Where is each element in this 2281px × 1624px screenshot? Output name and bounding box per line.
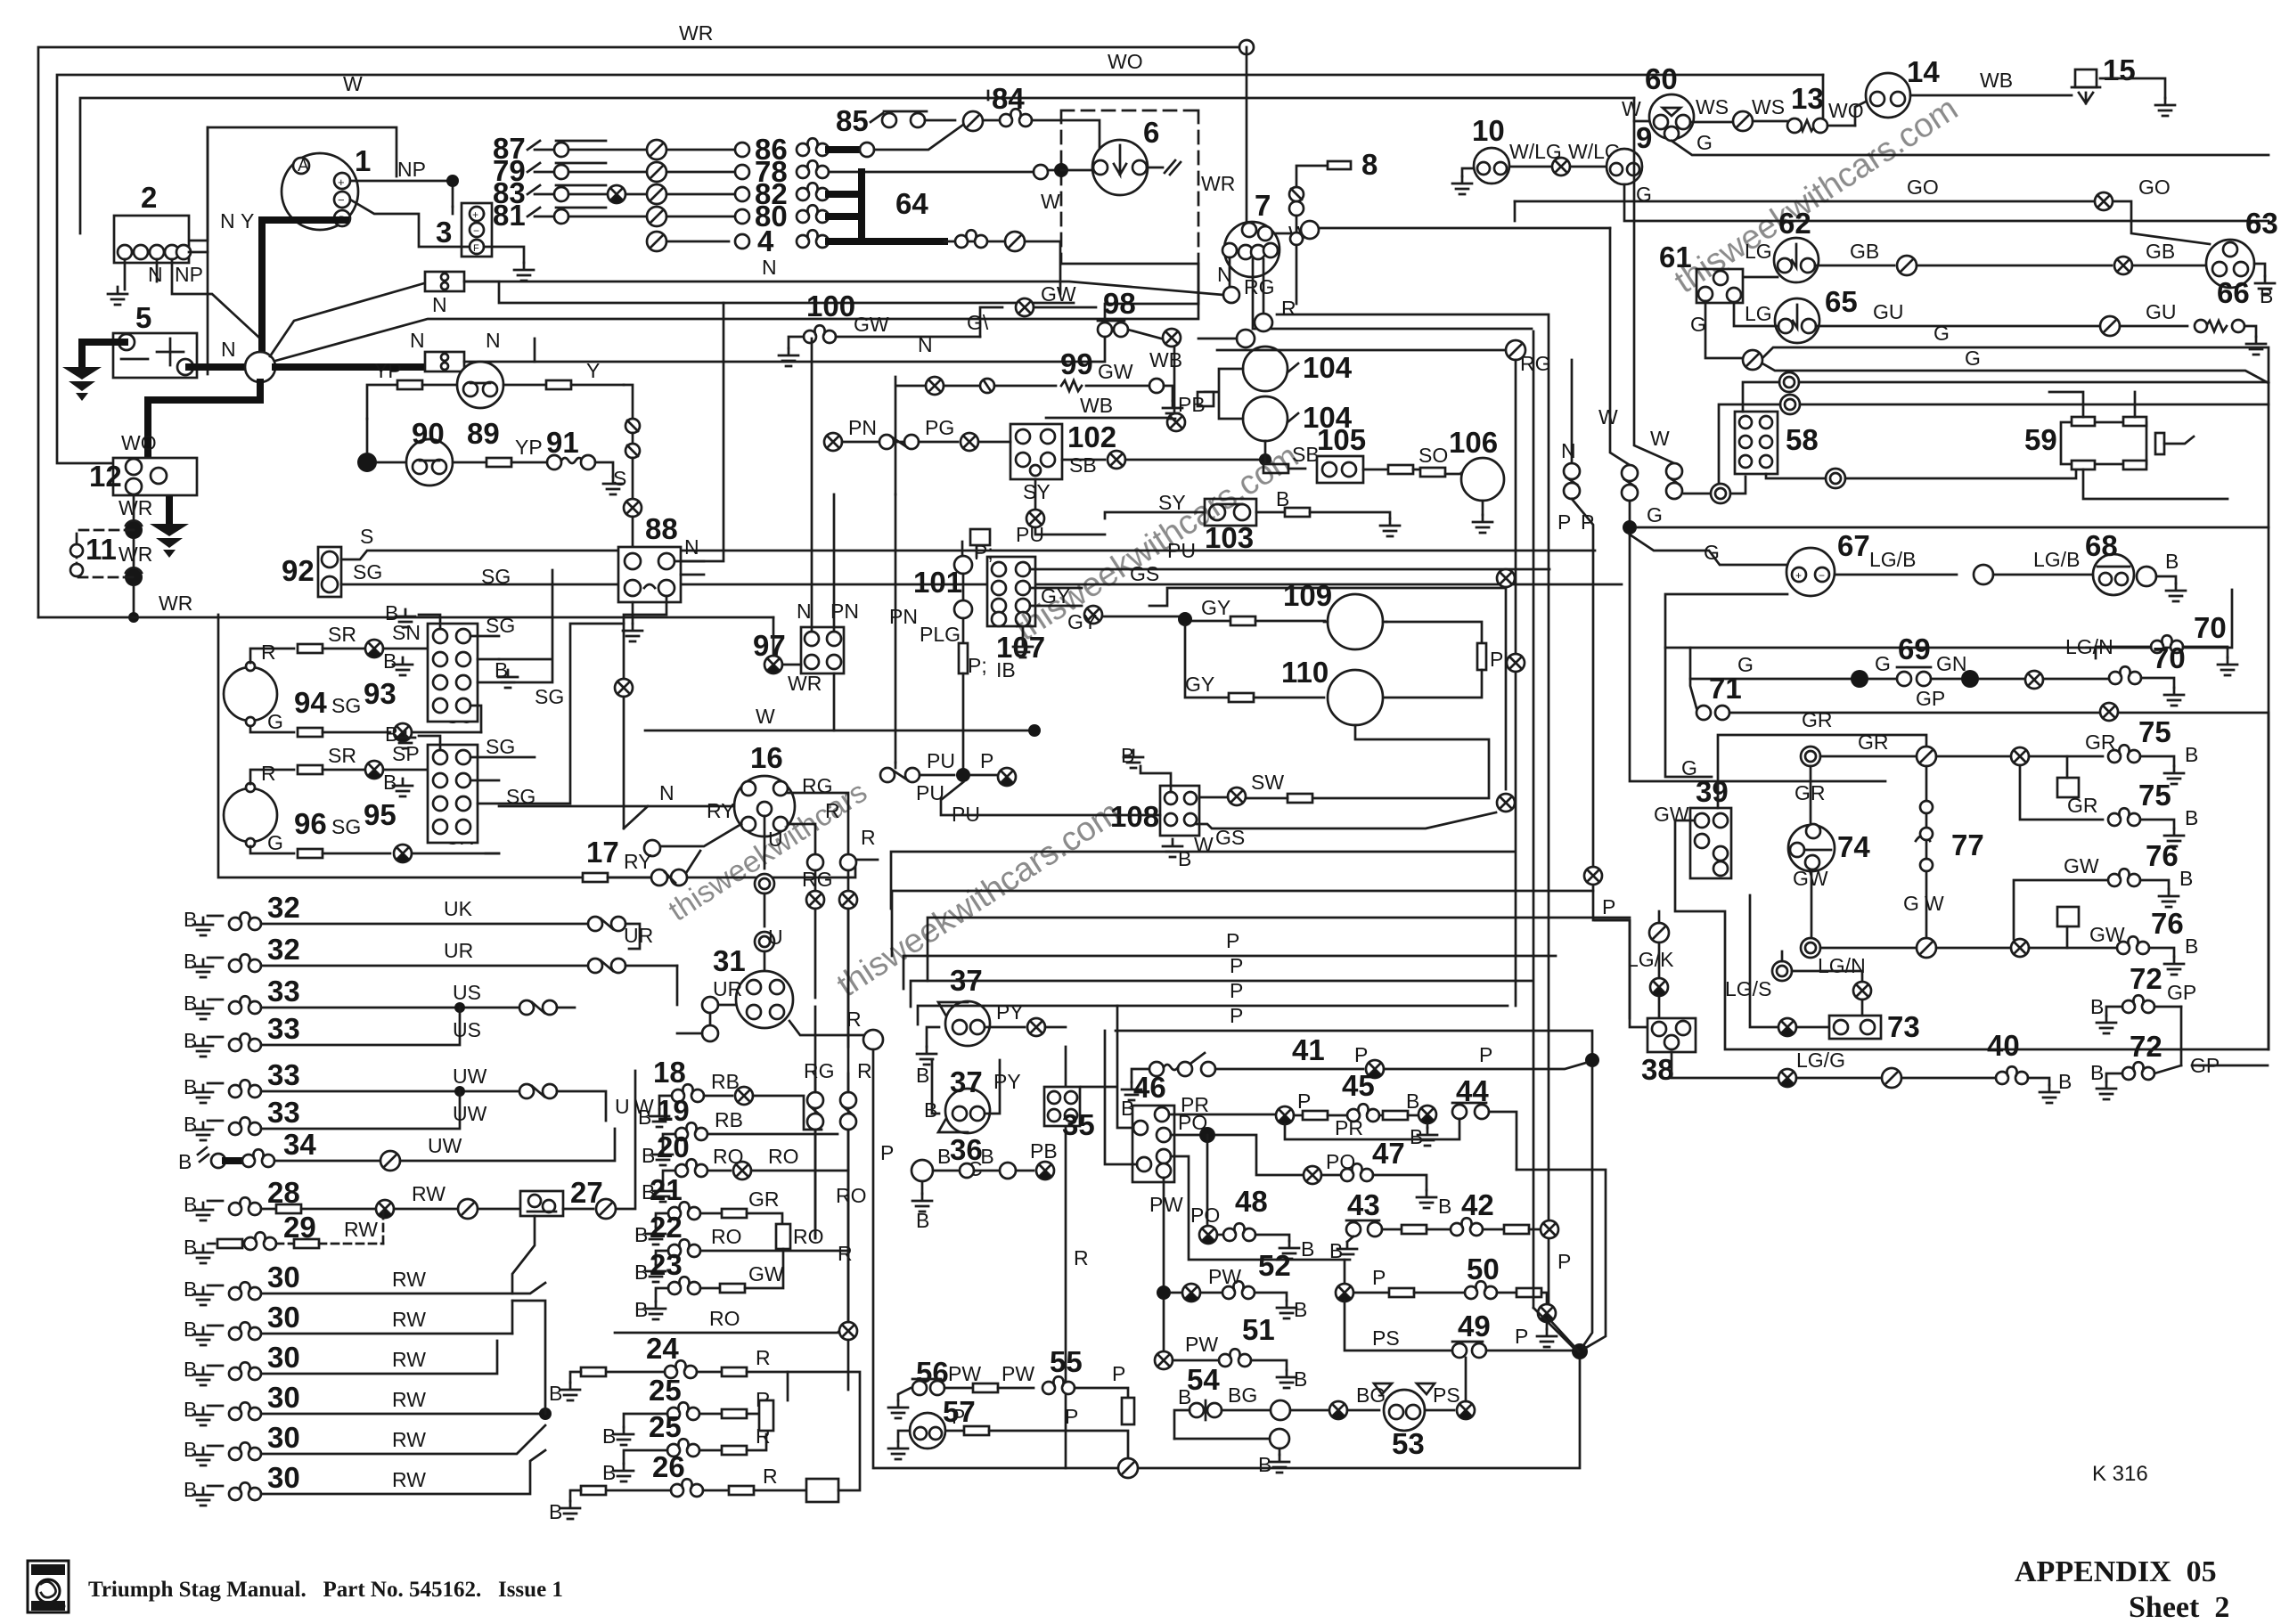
svg-text:′B: ′B xyxy=(977,1145,994,1168)
connector block 108 xyxy=(1110,786,1199,836)
svg-text:APPENDIX 05: APPENDIX 05 xyxy=(2015,1555,2217,1588)
switch 31 xyxy=(713,944,793,1028)
svg-text:LG/B: LG/B xyxy=(1869,548,1916,571)
connector block 38 xyxy=(1641,1018,1696,1086)
svg-text:69: 69 xyxy=(1898,632,1931,665)
86/78/82/80/4 row xyxy=(735,125,1061,294)
svg-text:94: 94 xyxy=(294,686,327,719)
svg-text:25: 25 xyxy=(649,1374,682,1407)
svg-text:10: 10 xyxy=(1472,114,1505,147)
component 10 xyxy=(1472,114,1509,184)
lamp 45 / switch 44 xyxy=(1276,1106,1294,1124)
svg-text:4: 4 xyxy=(757,224,774,257)
lamps 104 xyxy=(1243,347,1353,391)
svg-text:WS: WS xyxy=(1696,95,1729,118)
svg-text:31: 31 xyxy=(713,944,746,977)
svg-text:P: P xyxy=(1230,1004,1243,1027)
svg-text:UW: UW xyxy=(428,1134,462,1157)
SG wire from 88 area down xyxy=(624,596,666,677)
svg-text:67: 67 xyxy=(1837,529,1870,562)
svg-text:UR: UR xyxy=(713,977,742,1000)
thick lead battery + to node xyxy=(189,363,251,371)
svg-text:B: B xyxy=(1410,1125,1423,1148)
svg-text:43: 43 xyxy=(1347,1188,1380,1221)
connector pair symbols (7/8 and 5/6) on RG/R verticals xyxy=(807,1092,823,1108)
svg-text:UR: UR xyxy=(624,924,653,947)
wire W top xyxy=(80,98,1634,233)
svg-text:110: 110 xyxy=(1281,656,1329,689)
svg-text:6: 6 xyxy=(1143,116,1159,149)
inner alternator box xyxy=(208,127,397,374)
svg-text:B: B xyxy=(184,1236,197,1259)
svg-text:B: B xyxy=(1258,1453,1271,1476)
svg-text:RG: RG xyxy=(804,1059,835,1082)
svg-text:N: N xyxy=(220,209,235,233)
svg-text:38: 38 xyxy=(1641,1053,1674,1086)
battery 5 xyxy=(113,301,197,378)
svg-text:3: 3 xyxy=(436,216,452,249)
svg-text:39: 39 xyxy=(1696,775,1729,808)
svg-text:−: − xyxy=(1819,569,1825,582)
svg-text:32: 32 xyxy=(267,891,300,924)
svg-text:GY: GY xyxy=(1201,596,1230,619)
svg-text:P: P xyxy=(1065,1405,1078,1428)
lower lamp group 96/95 xyxy=(224,783,327,847)
svg-text:RO: RO xyxy=(793,1225,824,1248)
svg-text:LG/B: LG/B xyxy=(2033,548,2080,571)
svg-text:G: G xyxy=(1875,652,1891,675)
svg-text:+: + xyxy=(338,175,345,189)
svg-text:RW: RW xyxy=(392,1308,426,1331)
svg-text:BG: BG xyxy=(1228,1383,1257,1407)
svg-text:26: 26 xyxy=(652,1450,685,1483)
svg-text:LG/N: LG/N xyxy=(1818,954,1866,977)
main node xyxy=(245,352,275,382)
wire NP from 1 to node xyxy=(350,178,453,207)
svg-text:63: 63 xyxy=(2245,207,2278,240)
sender 63 xyxy=(2206,207,2278,288)
svg-text:96: 96 xyxy=(294,807,327,840)
svg-text:PW: PW xyxy=(1208,1265,1241,1288)
svg-text:SG: SG xyxy=(486,735,515,758)
svg-text:18: 18 xyxy=(653,1056,686,1089)
svg-text:59: 59 xyxy=(2024,423,2057,456)
svg-text:95: 95 xyxy=(364,798,397,831)
svg-text:66: 66 xyxy=(2217,276,2250,309)
svg-text:W: W xyxy=(1598,405,1618,428)
svg-text:RW: RW xyxy=(392,1428,426,1451)
svg-text:58: 58 xyxy=(1786,423,1819,456)
svg-text:B: B xyxy=(1406,1089,1419,1113)
gauge 65 xyxy=(1775,285,1858,343)
connector 92 xyxy=(282,547,341,597)
svg-text:−: − xyxy=(338,193,345,207)
svg-text:65: 65 xyxy=(1825,285,1858,318)
wire GW / lamp 76 xyxy=(1801,938,1820,958)
svg-text:YP: YP xyxy=(374,359,402,382)
svg-text:PN: PN xyxy=(889,605,918,628)
svg-text:91: 91 xyxy=(546,426,579,459)
svg-text:53: 53 xyxy=(1392,1427,1425,1460)
svg-text:NP: NP xyxy=(397,158,426,181)
svg-text:N: N xyxy=(432,293,447,316)
svg-text:7: 7 xyxy=(1255,189,1271,222)
wire P feeds xyxy=(892,891,1593,956)
connector block 8-pin upper xyxy=(428,624,478,722)
svg-text:K 316: K 316 xyxy=(2092,1462,2148,1486)
svg-text:GR: GR xyxy=(2067,794,2098,817)
svg-text:GR: GR xyxy=(1802,708,1833,731)
svg-text:W: W xyxy=(1650,427,1670,450)
svg-text:GO: GO xyxy=(2138,175,2171,199)
svg-text:N: N xyxy=(221,338,236,361)
svg-text:100: 100 xyxy=(806,290,855,322)
motor 109 xyxy=(1230,616,1255,625)
svg-text:P: P xyxy=(1297,1089,1311,1113)
wire W xyxy=(645,730,1034,732)
svg-text:PW: PW xyxy=(1002,1362,1034,1385)
svg-text:R: R xyxy=(763,1465,778,1488)
connector block 8-pin lower xyxy=(428,745,478,843)
svg-text:B: B xyxy=(634,1261,648,1284)
svg-text:IB: IB xyxy=(996,658,1016,681)
horns 37 xyxy=(938,964,990,1046)
svg-text:R: R xyxy=(1074,1246,1089,1269)
svg-text:G: G xyxy=(1696,131,1713,154)
svg-text:N: N xyxy=(684,535,699,559)
component 60 xyxy=(1645,62,1694,141)
component 8 xyxy=(1296,166,1328,201)
svg-text:G: G xyxy=(267,710,283,733)
svg-text:24: 24 xyxy=(646,1332,679,1365)
svg-text:B: B xyxy=(1301,1237,1314,1261)
svg-text:N: N xyxy=(797,600,812,623)
svg-text:B: B xyxy=(549,1382,562,1405)
svg-text:71: 71 xyxy=(1709,672,1742,705)
component 9 xyxy=(1607,121,1652,184)
svg-text:N: N xyxy=(148,263,163,286)
svg-text:25: 25 xyxy=(649,1410,682,1443)
svg-text:WO: WO xyxy=(1828,99,1864,122)
svg-text:GW: GW xyxy=(2064,854,2099,877)
svg-text:PS: PS xyxy=(1372,1326,1400,1350)
inline connector on N bus xyxy=(425,272,464,291)
svg-text:21: 21 xyxy=(650,1173,683,1206)
rows 87/79/83/81 with switches xyxy=(493,132,646,232)
svg-text:30: 30 xyxy=(267,1381,300,1414)
svg-text:30: 30 xyxy=(267,1421,300,1454)
thick N to right connector xyxy=(275,363,428,371)
GO / GB / GU rows right xyxy=(1515,201,2210,244)
WR bottom bus xyxy=(38,616,773,619)
upper lamp group 94/93 xyxy=(224,662,327,726)
svg-text:B: B xyxy=(184,1113,197,1136)
svg-text:B: B xyxy=(184,1398,197,1421)
connector block 88 xyxy=(618,512,681,602)
svg-text:37: 37 xyxy=(950,1065,983,1098)
svg-text:GN: GN xyxy=(1936,652,1967,675)
svg-text:77: 77 xyxy=(1951,828,1984,861)
svg-text:B: B xyxy=(634,1223,648,1246)
component 7 ignition switch xyxy=(1222,189,1279,277)
svg-text:Y: Y xyxy=(586,359,600,382)
svg-text:B: B xyxy=(549,1500,562,1523)
svg-text:Sheet 2: Sheet 2 xyxy=(2129,1591,2229,1624)
svg-text:WR: WR xyxy=(1201,172,1235,195)
svg-text:42: 42 xyxy=(1461,1188,1494,1221)
connector 61 xyxy=(1659,241,1743,303)
svg-text:R: R xyxy=(261,641,276,664)
switch 74 xyxy=(1788,824,1870,871)
svg-text:SR: SR xyxy=(328,623,356,646)
svg-text:P: P xyxy=(1557,1250,1571,1273)
svg-text:5: 5 xyxy=(135,301,151,334)
svg-text:B: B xyxy=(602,1461,616,1484)
svg-text:11: 11 xyxy=(86,533,117,566)
svg-text:PY: PY xyxy=(993,1070,1021,1093)
rheostat 99 xyxy=(926,377,944,395)
motor 110 xyxy=(1185,625,1228,698)
svg-text:B: B xyxy=(937,1145,951,1168)
svg-text:GW: GW xyxy=(748,1262,784,1285)
svg-text:52: 52 xyxy=(1258,1249,1291,1282)
svg-text:B: B xyxy=(385,722,398,746)
wire SB xyxy=(1062,459,1105,461)
gauge 62 xyxy=(1774,207,1819,282)
svg-text:RW: RW xyxy=(344,1218,378,1241)
svg-text:B: B xyxy=(2185,743,2198,766)
svg-text:64: 64 xyxy=(895,187,928,220)
svg-text:P: P xyxy=(1515,1325,1528,1348)
wire GR / lamp 75 xyxy=(1801,747,1820,766)
svg-text:B: B xyxy=(184,1478,197,1501)
svg-text:75: 75 xyxy=(2138,715,2171,748)
Y/S chain down to 88 xyxy=(624,385,633,419)
svg-text:16: 16 xyxy=(750,741,783,774)
connector block 73 xyxy=(1829,1010,1920,1043)
svg-text:P: P xyxy=(1112,1362,1125,1385)
svg-text:W: W xyxy=(343,72,363,95)
svg-text:30: 30 xyxy=(267,1341,300,1374)
wire WO top xyxy=(57,75,1823,463)
switches 30 xyxy=(184,1261,552,1506)
svg-text:99: 99 xyxy=(1060,347,1093,380)
svg-text:19: 19 xyxy=(657,1094,690,1127)
svg-text:R: R xyxy=(1281,297,1296,320)
svg-text:PB: PB xyxy=(1178,393,1206,416)
svg-text:41: 41 xyxy=(1292,1033,1325,1066)
svg-text:105: 105 xyxy=(1317,423,1366,456)
svg-text:A: A xyxy=(298,157,309,175)
svg-text:PU: PU xyxy=(1016,523,1044,546)
wire convergence diagonals xyxy=(1582,1067,1592,1347)
YP / 89 / 90 / 91 row xyxy=(367,385,397,419)
svg-text:72: 72 xyxy=(2130,1030,2162,1063)
svg-text:55: 55 xyxy=(1050,1345,1083,1378)
svg-text:22: 22 xyxy=(650,1211,683,1244)
svg-text:RG: RG xyxy=(1244,275,1275,298)
svg-text:WO: WO xyxy=(121,431,157,454)
svg-text:B: B xyxy=(184,1438,197,1461)
svg-text:B: B xyxy=(2165,550,2179,573)
svg-text:WR: WR xyxy=(159,592,192,615)
svg-text:33: 33 xyxy=(267,1096,300,1129)
svg-text:U: U xyxy=(768,926,783,949)
component 3 regulator xyxy=(436,203,492,257)
svg-text:PN: PN xyxy=(848,416,877,439)
svg-text:20: 20 xyxy=(657,1130,690,1163)
svg-text:30: 30 xyxy=(267,1301,300,1334)
connector block 107 xyxy=(987,557,1045,664)
svg-text:SG: SG xyxy=(535,685,564,708)
svg-text:PU: PU xyxy=(927,749,955,772)
svg-text:+: + xyxy=(1795,569,1802,582)
svg-text:B: B xyxy=(184,1318,197,1341)
wire GS xyxy=(1149,588,1506,606)
thick charge lead from 1B to node xyxy=(262,220,346,363)
svg-text:B: B xyxy=(602,1424,616,1448)
svg-text:SG: SG xyxy=(331,815,361,838)
svg-text:B: B xyxy=(2179,867,2193,890)
svg-text:F: F xyxy=(473,243,479,254)
switch 41 xyxy=(1585,1053,1599,1067)
svg-text:PLG: PLG xyxy=(920,623,961,646)
svg-text:33: 33 xyxy=(267,1058,300,1091)
svg-text:WR: WR xyxy=(119,543,152,566)
svg-text:−: − xyxy=(473,224,479,237)
svg-text:SG: SG xyxy=(353,560,382,583)
svg-text:G: G xyxy=(267,831,283,854)
svg-text:R: R xyxy=(838,1242,853,1265)
svg-text:LG: LG xyxy=(1745,302,1772,325)
svg-text:B: B xyxy=(184,1029,197,1052)
svg-text:109: 109 xyxy=(1283,579,1332,612)
svg-text:G: G xyxy=(1690,313,1706,336)
wire GY xyxy=(1084,606,1102,624)
switch 98 xyxy=(980,307,1002,337)
svg-text:US: US xyxy=(453,981,481,1004)
svg-text:GW: GW xyxy=(1654,803,1689,826)
svg-text:GP: GP xyxy=(2167,981,2196,1004)
svg-text:76: 76 xyxy=(2151,907,2184,940)
svg-text:P;: P; xyxy=(968,654,987,677)
svg-text:WR: WR xyxy=(119,496,152,519)
svg-text:G: G xyxy=(1681,756,1697,779)
svg-text:23: 23 xyxy=(650,1248,683,1281)
svg-text:P: P xyxy=(1479,1043,1492,1066)
second N bus w connector xyxy=(425,352,464,371)
svg-text:B: B xyxy=(383,771,397,794)
svg-text:98: 98 xyxy=(1103,287,1136,320)
svg-text:PS: PS xyxy=(1433,1383,1460,1407)
svg-text:81: 81 xyxy=(493,199,526,232)
svg-text:S: S xyxy=(360,525,373,548)
svg-text:WS: WS xyxy=(1752,95,1785,118)
svg-text:S: S xyxy=(613,467,626,490)
connector 58 and switch 59 xyxy=(1735,412,1819,474)
component 6 xyxy=(1092,116,1181,195)
svg-text:76: 76 xyxy=(2146,839,2179,872)
svg-text:73: 73 xyxy=(1887,1010,1920,1043)
wire GR / lamp 75 lower xyxy=(2020,765,2103,820)
svg-text:45: 45 xyxy=(1342,1069,1375,1102)
svg-text:LEYLAND: LEYLAND xyxy=(32,1603,66,1611)
svg-text:WB: WB xyxy=(1149,348,1182,371)
svg-text:46: 46 xyxy=(1133,1071,1166,1104)
svg-text:RY: RY xyxy=(624,850,652,873)
svg-text:B: B xyxy=(638,1106,651,1129)
svg-text:N: N xyxy=(410,329,425,352)
svg-text:B: B xyxy=(916,1209,929,1232)
svg-text:RO: RO xyxy=(836,1184,867,1207)
svg-text:51: 51 xyxy=(1242,1313,1275,1346)
svg-text:N: N xyxy=(486,329,501,352)
svg-text:72: 72 xyxy=(2130,962,2162,995)
box around 95/96 region xyxy=(218,615,855,877)
svg-text:PG: PG xyxy=(925,416,954,439)
svg-text:R: R xyxy=(857,1059,872,1082)
svg-text:B: B xyxy=(184,1075,197,1098)
switches 24 25 25 26 xyxy=(549,1332,860,1523)
svg-text:RW: RW xyxy=(392,1468,426,1491)
svg-text:P: P xyxy=(1602,895,1615,918)
svg-text:75: 75 xyxy=(2138,779,2171,812)
component 14 xyxy=(1866,55,1940,118)
svg-text:40: 40 xyxy=(1987,1029,2020,1062)
svg-text:33: 33 xyxy=(267,975,300,1008)
svg-text:PB: PB xyxy=(1030,1139,1058,1163)
svg-text:32: 32 xyxy=(267,933,300,966)
svg-text:GR: GR xyxy=(748,1187,780,1211)
svg-text:9: 9 xyxy=(1636,121,1652,154)
svg-text:SG: SG xyxy=(486,614,515,637)
svg-text:PW: PW xyxy=(1185,1333,1218,1356)
svg-text:15: 15 xyxy=(2103,53,2136,86)
wire SW xyxy=(1312,725,1489,798)
component 12 xyxy=(89,458,197,495)
svg-text:P: P xyxy=(880,1141,894,1164)
svg-text:GB: GB xyxy=(2146,240,2175,263)
svg-text:GO: GO xyxy=(1907,175,1939,199)
svg-text:106: 106 xyxy=(1449,426,1498,459)
svg-text:74: 74 xyxy=(1837,830,1870,863)
N wires from node up right xyxy=(270,282,1223,356)
svg-text:89: 89 xyxy=(467,417,500,450)
wire from 27 xyxy=(512,1216,535,1293)
wire WR top xyxy=(38,47,1239,617)
svg-text:PW: PW xyxy=(948,1362,981,1385)
slashed circles column xyxy=(647,140,666,159)
svg-text:B: B xyxy=(184,950,197,973)
svg-text:B: B xyxy=(184,1193,197,1216)
svg-text:12: 12 xyxy=(89,460,122,493)
svg-text:WR: WR xyxy=(679,21,713,45)
svg-text:GP: GP xyxy=(1916,687,1945,710)
svg-text:B: B xyxy=(184,1358,197,1381)
svg-text:WB: WB xyxy=(1080,394,1113,417)
svg-text:GB: GB xyxy=(1850,240,1879,263)
svg-text:G: G xyxy=(1704,541,1720,564)
svg-text:GW: GW xyxy=(1098,360,1133,383)
P vertical from pic mid xyxy=(1065,1047,1067,1468)
svg-text:R: R xyxy=(261,762,276,785)
svg-text:SW: SW xyxy=(1251,771,1284,794)
svg-text:B: B xyxy=(184,1277,197,1301)
wire R / RO verticals xyxy=(847,909,850,1322)
component 1 alternator xyxy=(282,144,371,230)
svg-text:U: U xyxy=(615,1095,630,1118)
svg-text:B: B xyxy=(1178,1385,1191,1408)
